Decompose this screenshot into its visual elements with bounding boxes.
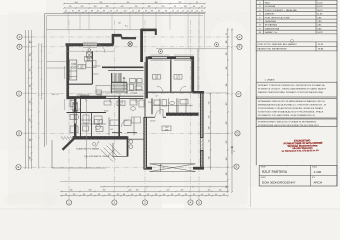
grid bubble A right — [237, 35, 242, 40]
grid bubble C left — [16, 91, 21, 96]
red approval stamp — [281, 138, 323, 153]
notes box 1 — [256, 82, 337, 97]
table summary rows — [256, 39, 337, 51]
svg-text:120: 120 — [118, 23, 121, 25]
left wing clutter marks — [70, 115, 134, 139]
door arc bedroom 2 — [180, 86, 186, 92]
dining table — [86, 61, 96, 68]
interior wall kitchen horizontal — [67, 83, 93, 85]
svg-text:93.53: 93.53 — [318, 44, 324, 46]
svg-text:POWIERZCHNI OBLICZONO WG NORMY: POWIERZCHNI OBLICZONO WG NORMY PN-ISO 98… — [258, 125, 320, 127]
svg-text:GARAZ 2 st.: GARAZ 2 st. — [265, 31, 278, 34]
left wall hatch marks — [67, 44, 69, 94]
room label kitchen — [78, 65, 86, 69]
room label gosp — [95, 120, 103, 124]
svg-text:62: 62 — [132, 11, 134, 13]
svg-text:238: 238 — [30, 119, 32, 122]
svg-text:186: 186 — [148, 6, 151, 8]
svg-text:WYMAGANE SZEROKOSCI W MARGINES: WYMAGANE SZEROKOSCI W MARGINESACH EWAKUA… — [258, 100, 325, 103]
svg-text:34.78: 34.78 — [317, 32, 323, 34]
boiler room fixtures — [94, 116, 102, 124]
svg-text:60: 60 — [147, 194, 149, 196]
svg-text:287: 287 — [179, 2, 182, 4]
svg-text:410: 410 — [129, 190, 132, 192]
terrace outline bottom-left — [51, 140, 53, 168]
right dimension chain line 1 — [227, 28, 229, 192]
svg-text:45: 45 — [208, 194, 210, 196]
left wall window — [66, 66, 68, 79]
garage right wall hatch marks — [200, 93, 203, 167]
bottom wall right wing right part — [193, 167, 204, 170]
bedroom window 2 double line — [176, 56, 190, 58]
left wing small partition — [91, 113, 93, 138]
svg-text:100/200: 100/200 — [150, 121, 156, 123]
svg-text:11.80: 11.80 — [317, 14, 323, 16]
garage door arc — [155, 109, 163, 117]
svg-text:1:100: 1:100 — [314, 170, 322, 174]
vent cluster rect with X — [87, 49, 93, 58]
corridor wall horizontal heavy — [67, 96, 107, 99]
svg-text:30: 30 — [201, 11, 203, 13]
top dimension chain line 3 — [64, 11, 205, 13]
svg-text:60: 60 — [90, 194, 92, 196]
bottom wall right wing left part — [144, 167, 153, 170]
top wall lower segment — [122, 37, 137, 39]
svg-text:120: 120 — [124, 11, 127, 13]
svg-text:2x17.6x28: 2x17.6x28 — [130, 93, 137, 95]
grid axis C horizontal — [23, 93, 236, 95]
living room furniture — [96, 86, 111, 93]
bedroom top wall jamb left — [148, 56, 152, 59]
door arc living room — [97, 45, 105, 53]
bottom dimension chain line 0 — [60, 180, 228, 182]
svg-text:34.8: 34.8 — [165, 129, 168, 131]
bottom wall left wing hatch lines — [74, 136, 77, 140]
svg-text:245: 245 — [30, 69, 32, 72]
svg-text:MINIMALNA REGULACJA ELEWACJI I: MINIMALNA REGULACJA ELEWACJI I OTWOROW O… — [258, 104, 326, 107]
svg-text:178: 178 — [209, 102, 211, 105]
right outer wall lower — [200, 150, 204, 170]
north arrow — [231, 146, 233, 154]
svg-text:168: 168 — [226, 158, 228, 161]
svg-text:128: 128 — [226, 53, 228, 56]
right wing top wall — [193, 91, 204, 93]
svg-text:88: 88 — [138, 11, 140, 13]
svg-text:RZUT PARTERU: RZUT PARTERU — [262, 170, 288, 174]
grid axis 5 vertical — [198, 20, 200, 200]
svg-text:208: 208 — [226, 122, 228, 125]
chimney right end vertical — [155, 29, 157, 35]
wc circles near porch — [129, 140, 133, 149]
roof outline left vertical double line — [44, 14, 46, 147]
bedroom area inner wall horizontal — [147, 91, 193, 93]
svg-text:150: 150 — [94, 6, 97, 8]
top wall left wing — [66, 43, 84, 46]
svg-text:88: 88 — [171, 194, 173, 196]
grid bubble A left — [17, 34, 22, 39]
grid bubble B left — [17, 44, 22, 49]
left outer wall upper — [66, 44, 69, 67]
svg-text:ARCH: ARCH — [314, 181, 323, 185]
svg-text:60: 60 — [158, 11, 160, 13]
kitchen sink — [69, 71, 77, 77]
svg-text:60: 60 — [193, 6, 195, 8]
svg-text:11.8: 11.8 — [155, 78, 158, 80]
garage wall dimension chain — [210, 93, 212, 170]
svg-text:C: C — [18, 92, 20, 96]
svg-text:1.09: 1.09 — [110, 129, 113, 131]
top wall upper segment — [112, 34, 122, 37]
door arc hall — [121, 120, 128, 127]
grid bubble 3 bottom — [142, 200, 147, 205]
notes box 3 — [256, 119, 337, 127]
grid axis 2 vertical — [113, 20, 115, 200]
grid bubble D left — [16, 131, 21, 136]
svg-text:KUCHNIA: KUCHNIA — [265, 5, 276, 8]
left wall jog horizontal — [67, 97, 77, 99]
corridor clutter marks — [92, 66, 136, 105]
grid axis B horizontal — [23, 46, 238, 48]
svg-text:7.8: 7.8 — [97, 123, 99, 125]
svg-text:246: 246 — [70, 190, 73, 192]
grid bubble 2 bottom — [112, 200, 117, 205]
svg-text:100: 100 — [30, 41, 32, 44]
svg-text:1. UWAGI:: 1. UWAGI: — [265, 78, 276, 81]
svg-text:162: 162 — [30, 101, 32, 104]
grid bubble 5 bottom — [196, 200, 201, 205]
svg-text:120: 120 — [73, 194, 76, 196]
door arc wc — [75, 106, 81, 112]
svg-text:14.2: 14.2 — [119, 104, 122, 106]
staircase borders — [112, 73, 128, 93]
garage left wall — [143, 117, 147, 170]
svg-text:SPIZARNIA: SPIZARNIA — [265, 24, 278, 27]
entrance steps diagonals — [101, 144, 121, 162]
svg-text:ZAWSZE ZWERYFIKOWAC WYMIARY OT: ZAWSZE ZWERYFIKOWAC WYMIARY OTWOROW NA B… — [258, 91, 324, 94]
top dimension chain line 2 — [64, 7, 205, 9]
bottom dimension chain line 1 — [100, 186, 228, 188]
grid bubble E right — [234, 164, 239, 169]
small dimension text marks inside plan — [72, 95, 158, 132]
svg-text:100: 100 — [226, 41, 228, 44]
left dimension ticks — [25, 36, 27, 169]
grid axis 3 vertical — [144, 20, 146, 200]
grid bubble C right — [236, 92, 241, 97]
roof overhang line above plan — [47, 29, 156, 31]
left sub dimension chain B — [41, 44, 43, 99]
svg-text:10.8: 10.8 — [80, 68, 83, 70]
kitchen stove circles — [72, 63, 74, 65]
room label bedroom2 — [174, 75, 182, 80]
right outer wall upper — [200, 92, 204, 138]
svg-text:60: 60 — [145, 11, 147, 13]
bathroom wall hatch lines — [167, 112, 170, 116]
svg-text:30.8: 30.8 — [87, 60, 90, 62]
svg-text:282: 282 — [103, 190, 106, 192]
grid bubble 1 bottom — [66, 200, 71, 205]
grid axis E horizontal — [23, 166, 235, 168]
bedroom partition wall — [170, 60, 172, 93]
room label hall — [117, 101, 125, 106]
svg-text:45: 45 — [196, 11, 198, 13]
svg-text:90: 90 — [174, 6, 176, 8]
svg-text:208: 208 — [30, 157, 32, 160]
svg-text:E: E — [18, 165, 20, 169]
left outer wall mid — [66, 79, 69, 99]
svg-text:60: 60 — [172, 11, 174, 13]
vent circle symbol 2 — [215, 43, 219, 47]
svg-text:KONSTRUKCYJNE WYMAGAJA ZGODY P: KONSTRUKCYJNE WYMAGAJA ZGODY PROJEKTANTA… — [258, 111, 324, 114]
svg-text:W SWIETLE OSCIEZY - PRZED ZAMO: W SWIETLE OSCIEZY - PRZED ZAMOWIENIEM ST… — [258, 87, 327, 90]
svg-text:88: 88 — [155, 194, 157, 196]
svg-text:88: 88 — [151, 11, 153, 13]
top dimension ticks — [63, 3, 206, 5]
svg-text:POKOJ DZIENNY + JADALNIA: POKOJ DZIENNY + JADALNIA — [265, 9, 297, 12]
svg-text:45: 45 — [193, 194, 195, 196]
svg-text:190: 190 — [226, 84, 228, 87]
svg-text:186: 186 — [106, 6, 109, 8]
entrance porch east wall — [127, 137, 129, 157]
staircase lower flight horizontal treads — [112, 83, 128, 93]
sheet fold line — [250, 0, 252, 207]
bedroom left wall — [146, 57, 148, 99]
roof outline double line top — [45, 13, 206, 15]
svg-text:B: B — [19, 45, 21, 49]
room label living — [85, 57, 93, 62]
svg-text:DOM JEDNORODZINNY: DOM JEDNORODZINNY — [262, 181, 296, 185]
svg-text:100: 100 — [209, 127, 211, 130]
hall fixtures — [132, 117, 141, 123]
svg-text:140: 140 — [30, 139, 32, 142]
svg-text:210: 210 — [162, 6, 165, 8]
svg-text:90/200: 90/200 — [97, 95, 102, 97]
terrace outline left — [47, 61, 67, 63]
svg-text:130: 130 — [30, 54, 32, 57]
svg-text:D: D — [18, 131, 20, 135]
svg-text:WYMIARY OTWOROW OKIENNYCH I DR: WYMIARY OTWOROW OKIENNYCH I DRZWIOWYCH P… — [258, 84, 325, 87]
top wall small step — [121, 35, 123, 38]
svg-text:12.4: 12.4 — [176, 78, 179, 80]
top droppers to roofline right — [187, 14, 189, 49]
garage top wall left part — [147, 116, 155, 118]
svg-text:E: E — [236, 165, 238, 169]
grid axis D horizontal — [23, 132, 236, 134]
door arc bedroom 1 — [157, 86, 163, 92]
svg-text:POWIERZCHNIE I WIELKOSCI PODAN: POWIERZCHNIE I WIELKOSCI PODANE W ZESTAW… — [258, 120, 317, 123]
svg-text:88: 88 — [91, 11, 93, 13]
svg-text:110: 110 — [209, 116, 211, 119]
left dimension chain line 1 — [25, 30, 27, 169]
interior wall kitchen/living vertical — [91, 52, 93, 85]
hall partition vertical — [118, 96, 120, 136]
svg-text:LAZIENKA: LAZIENKA — [265, 20, 277, 23]
svg-text:RAZEM POW. NA PARTERZE: RAZEM POW. NA PARTERZE — [258, 48, 288, 51]
garage left wall hatch marks — [144, 117, 147, 167]
svg-text:60: 60 — [110, 11, 112, 13]
top wall extension droppers — [67, 14, 69, 30]
svg-text:PROWADZIC POD NADZOREM OSOB UP: PROWADZIC POD NADZOREM OSOB UPRAWNIONYCH… — [258, 114, 316, 117]
bottom dimension chain line 3 — [60, 195, 228, 197]
grid axis A horizontal — [23, 36, 238, 38]
svg-text:90: 90 — [65, 194, 67, 196]
svg-text:62: 62 — [72, 11, 74, 13]
top wall window sill marks — [83, 42, 194, 60]
svg-text:40: 40 — [201, 194, 203, 196]
thin wall right of porch — [128, 138, 143, 140]
svg-text:90: 90 — [116, 11, 118, 13]
svg-text:150: 150 — [135, 6, 138, 8]
bathroom fixtures — [130, 100, 137, 105]
svg-text:45: 45 — [223, 194, 225, 196]
grid bubble 4 bottom — [188, 200, 193, 205]
roof overhang line right section — [156, 48, 228, 50]
left dimension chain line 2 — [28, 30, 30, 169]
grid bubble B right — [237, 44, 242, 49]
svg-text:poz. -0.45: poz. -0.45 — [52, 94, 59, 96]
top wall window — [83, 43, 97, 45]
svg-text:88: 88 — [103, 11, 105, 13]
bedroom top wall jamb right — [190, 56, 194, 59]
svg-text:60: 60 — [163, 194, 165, 196]
svg-text:1.08: 1.08 — [97, 121, 100, 123]
entrance porch west edge — [112, 143, 114, 157]
hall-bath boundary vertical — [144, 62, 146, 117]
svg-text:POROZUMIENIU Z WLASCIWYM URZED: POROZUMIENIU Z WLASCIWYM URZEDEM. WSZELK… — [258, 107, 324, 110]
svg-text:90: 90 — [196, 2, 198, 4]
garage interior mark — [159, 165, 162, 172]
svg-text:C: C — [238, 92, 240, 96]
svg-text:88: 88 — [123, 194, 125, 196]
chimney vertical wall — [140, 29, 143, 62]
corridor wall horizontal thin — [80, 95, 144, 97]
right wing corridor lines — [152, 105, 193, 107]
grid bubble E left — [16, 165, 21, 170]
svg-text:146: 146 — [219, 190, 222, 192]
svg-text:120: 120 — [69, 6, 72, 8]
left outer wall lower end — [74, 124, 76, 139]
bay diagonal hatch — [70, 137, 73, 140]
kitchen counter — [69, 60, 77, 80]
room schedule table — [256, 0, 337, 34]
bay diagonal wall — [63, 138, 75, 150]
bedroom right outer wall — [191, 57, 194, 93]
top dimension chain line 1 — [64, 3, 205, 5]
svg-text:366: 366 — [155, 2, 158, 4]
svg-text:45: 45 — [187, 11, 189, 13]
vent circle symbol 1 — [159, 50, 163, 54]
garage door symbol — [150, 164, 196, 172]
bottom dimension chain line 2 — [60, 190, 228, 192]
left dimension chain line 3 — [31, 30, 33, 169]
svg-text:168: 168 — [209, 157, 211, 160]
left outer wall lower jogged — [74, 98, 76, 112]
svg-text:88: 88 — [165, 11, 167, 13]
svg-text:172: 172 — [209, 140, 211, 143]
hall partition vertical 2 — [151, 98, 153, 114]
left wing room partition horizontal — [67, 112, 107, 114]
svg-text:520: 520 — [167, 190, 170, 192]
svg-text:60: 60 — [97, 11, 99, 13]
chimney wall top arm — [141, 29, 157, 32]
top wall hatch marks — [67, 44, 111, 47]
block text row above corridor wall — [77, 94, 91, 97]
svg-text:GABINET: GABINET — [265, 13, 276, 16]
bath cluster clutter — [128, 79, 188, 115]
svg-text:120: 120 — [108, 194, 111, 196]
bedroom window 1 double line — [152, 56, 167, 58]
svg-text:88: 88 — [98, 194, 100, 196]
svg-text:260: 260 — [181, 190, 184, 192]
living/stair separating wall — [102, 66, 144, 68]
chimney rect with X — [73, 103, 77, 112]
window marks mid-bottom wall — [112, 132, 137, 134]
svg-text:14.23: 14.23 — [317, 3, 323, 5]
dimension chain below left wing — [85, 101, 87, 169]
left sub dimension chain A — [38, 44, 40, 168]
svg-text:196: 196 — [136, 190, 139, 192]
svg-text:45: 45 — [177, 11, 179, 13]
left wing room partition vertical — [80, 98, 82, 137]
svg-text:120: 120 — [184, 6, 187, 8]
svg-text:178: 178 — [226, 103, 228, 106]
svg-text:80/200: 80/200 — [104, 111, 109, 113]
grid axis 4 vertical — [190, 20, 192, 200]
top wall step vertical — [112, 35, 114, 45]
bottom wall left wing hatched — [73, 136, 128, 139]
entrance porch bottom edge — [113, 156, 128, 158]
svg-text:A: A — [239, 35, 241, 39]
left wall window sills — [65, 66, 72, 110]
svg-text:POM. WENTYLACYJNE: POM. WENTYLACYJNE — [265, 16, 290, 19]
svg-text:45: 45 — [178, 194, 180, 196]
bottom dimension ticks — [103, 186, 229, 188]
svg-text:30: 30 — [215, 194, 217, 196]
svg-text:10.76: 10.76 — [317, 6, 323, 8]
garage top wall right part — [163, 116, 166, 118]
right dimension ticks — [227, 29, 229, 193]
bedroom top wall jamb mid — [167, 56, 176, 59]
svg-text:1.01: 1.01 — [72, 110, 75, 112]
living room interior dimension line — [67, 50, 114, 52]
svg-text:262: 262 — [81, 6, 84, 8]
svg-text:90/200: 90/200 — [148, 102, 153, 104]
svg-text:172: 172 — [226, 141, 228, 144]
svg-text:1.03: 1.03 — [80, 66, 83, 68]
room label garage — [162, 126, 171, 131]
svg-text:62: 62 — [117, 194, 119, 196]
terrace edge vertical right wing — [197, 49, 199, 92]
right wall window gap — [200, 138, 202, 150]
notes box 2 — [256, 99, 337, 118]
svg-text:GARDEROBA: GARDEROBA — [265, 27, 280, 30]
svg-text:132: 132 — [226, 173, 228, 176]
svg-text:HALL: HALL — [265, 2, 271, 5]
grid axis 1 vertical — [68, 20, 70, 200]
column circle symbol at wall junction — [128, 42, 133, 47]
svg-text:1.07: 1.07 — [155, 96, 158, 98]
svg-text:240: 240 — [121, 6, 124, 8]
staircase arrow — [114, 77, 125, 91]
svg-text:OBIEKT: OBIEKT — [261, 177, 267, 179]
svg-text:D: D — [237, 131, 239, 135]
top wall right of window — [97, 43, 114, 46]
room label bedroom1 — [153, 75, 161, 80]
svg-text:A: A — [19, 35, 21, 39]
right wall droppers — [204, 92, 228, 94]
right dimension chain line 2 — [231, 28, 233, 192]
svg-text:RYS.: RYS. — [312, 177, 316, 179]
staircase upper flight vertical treads — [112, 73, 120, 82]
